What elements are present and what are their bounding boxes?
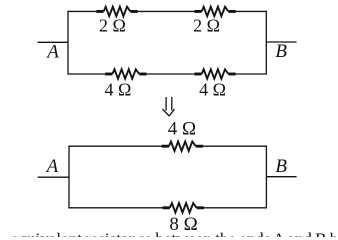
svg-text:A: A [45,156,59,177]
svg-text:4 Ω: 4 Ω [199,80,226,100]
svg-text:A: A [45,41,59,62]
svg-text:equivalent resistance between: equivalent resistance between the ends A… [11,230,338,238]
svg-text:4 Ω: 4 Ω [168,119,196,140]
svg-text:B: B [275,156,287,177]
svg-text:2 Ω: 2 Ω [99,16,126,36]
svg-text:B: B [275,41,287,62]
svg-text:4 Ω: 4 Ω [105,80,132,100]
svg-text:2 Ω: 2 Ω [193,16,220,36]
